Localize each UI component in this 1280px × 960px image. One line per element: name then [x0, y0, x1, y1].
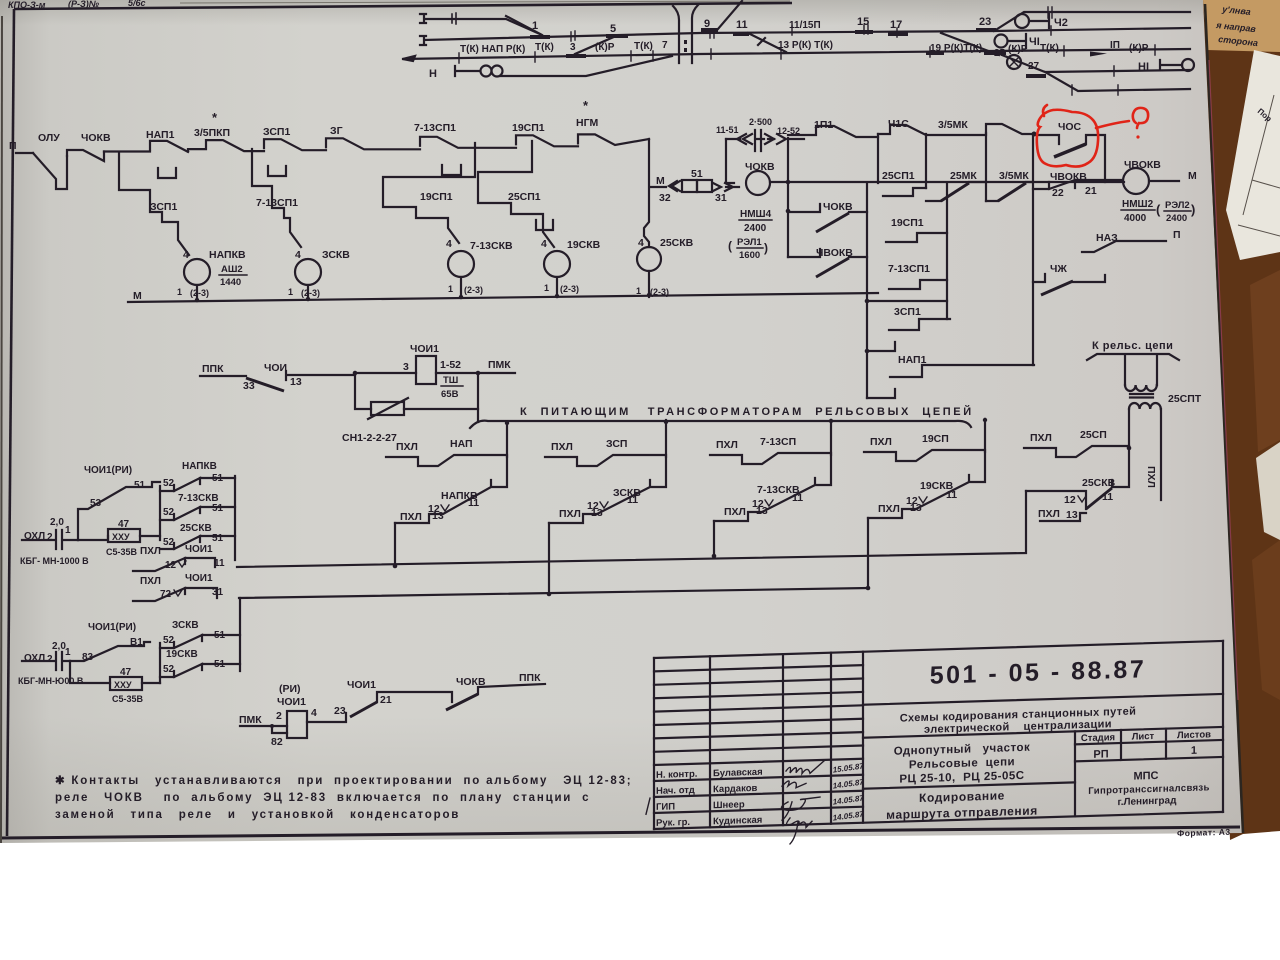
svg-text:13: 13: [290, 376, 302, 388]
svg-text:31: 31: [715, 192, 727, 204]
svg-text:НМШ2: НМШ2: [1122, 199, 1154, 210]
svg-text:52: 52: [163, 635, 175, 646]
SECTION: right network (ЧОКВ / ЧВОКВ): [0, 0, 1, 1]
svg-text:РП: РП: [1093, 748, 1108, 760]
svg-text:Т(К): Т(К): [1040, 43, 1059, 54]
svg-text:ППК: ППК: [202, 363, 224, 375]
svg-text:4000: 4000: [1124, 213, 1147, 224]
svg-text:1440: 1440: [220, 277, 241, 288]
svg-text:С5-35В: С5-35В: [112, 694, 144, 704]
svg-text:7-13СП1: 7-13СП1: [414, 122, 456, 134]
svg-text:ОЛУ: ОЛУ: [38, 132, 60, 144]
svg-text:3/5МК: 3/5МК: [999, 170, 1029, 182]
relay 19СКВ: [544, 251, 570, 277]
svg-text:25СКВ: 25СКВ: [1082, 477, 1116, 489]
sleeper marks on track C: [566, 53, 1006, 56]
svg-text:С5-35В: С5-35В: [106, 547, 138, 557]
svg-text:К рельс. цепи: К рельс. цепи: [1092, 340, 1173, 352]
svg-text:22: 22: [1052, 187, 1064, 199]
svg-text:ЧОКВ: ЧОКВ: [81, 132, 111, 144]
svg-text:3/5МК: 3/5МК: [938, 119, 968, 131]
svg-text:НГМ: НГМ: [576, 117, 599, 129]
SECTION: relay row 1: [9, 98, 878, 302]
svg-text:✱ Контакты устанавливаются: ✱ Контакты устанавливаются при проектиро…: [55, 775, 632, 787]
svg-text:1: 1: [1191, 745, 1197, 757]
tan paper top right with handwriting: [1203, 0, 1280, 52]
svg-text:1: 1: [177, 287, 182, 297]
svg-text:4: 4: [311, 707, 317, 719]
SECTION: bottom chain + footnote: [0, 0, 1, 1]
joint marks on track B: [571, 25, 1051, 41]
svg-text:ППК: ППК: [519, 672, 541, 684]
rails top row to mid row: [878, 133, 1033, 365]
svg-text:IП: IП: [1110, 40, 1120, 51]
svg-text:ЧОИ1(РИ): ЧОИ1(РИ): [88, 622, 136, 633]
relay НАПКВ type АШ2/1440: [184, 259, 210, 285]
svg-text:ПХЛ: ПХЛ: [140, 546, 161, 557]
svg-text:65В: 65В: [441, 389, 459, 400]
svg-text:РЭЛ2: РЭЛ2: [1165, 200, 1190, 211]
svg-text:27: 27: [1028, 61, 1040, 72]
svg-text:ЧОС: ЧОС: [1058, 121, 1082, 133]
svg-text:7-13СКВ: 7-13СКВ: [470, 240, 513, 252]
footnote text: [55, 775, 632, 821]
svg-text:3: 3: [403, 361, 409, 373]
sheet right edge shadow line: [1205, 4, 1243, 833]
svg-text:13: 13: [1066, 509, 1078, 521]
svg-text:1: 1: [288, 287, 293, 297]
wire rail: [506, 422, 508, 457]
svg-text:13: 13: [591, 507, 603, 519]
wire cap left leg: [725, 139, 727, 183]
svg-text:АШ2: АШ2: [221, 264, 243, 275]
handwritten signatures: [781, 761, 824, 844]
svg-text:3СП1: 3СП1: [894, 306, 921, 318]
svg-text:П: П: [9, 140, 17, 152]
svg-text:Н: Н: [429, 68, 437, 80]
svg-text:Кодирование: Кодирование: [919, 788, 1005, 805]
handwriting above top frame: [8, 0, 146, 10]
switch 25 crossing with X mark: [1002, 55, 1190, 91]
svg-text:ЧОИ1: ЧОИ1: [347, 679, 376, 691]
svg-text:82: 82: [271, 736, 283, 748]
svg-text:51: 51: [134, 480, 146, 491]
track C main lower: [403, 49, 1190, 61]
signal Н with two heads: [455, 66, 503, 77]
feeder group ЗСП: [545, 420, 666, 596]
SECTION: middle ЧОИ1 + feeders: [200, 340, 1202, 598]
svg-text:52: 52: [163, 507, 175, 518]
svg-text:(2-3): (2-3): [464, 285, 483, 295]
lighter paper slivers lower right: [1256, 442, 1280, 540]
wire rail 947 down: [946, 183, 948, 319]
svg-text:ЗСКВ: ЗСКВ: [172, 620, 199, 631]
svg-text:7-13СП: 7-13СП: [760, 436, 796, 448]
svg-text:Т(К) НАП Р(К): Т(К) НАП Р(К): [460, 44, 525, 55]
svg-text:Формат: А3: Формат: А3: [1177, 827, 1231, 839]
wire 867 to 947: [867, 300, 947, 302]
switch 1 diagonal: [506, 16, 542, 35]
svg-text:Стадия: Стадия: [1081, 732, 1115, 744]
handwritten dates: [832, 761, 864, 822]
svg-text:9: 9: [704, 18, 710, 30]
svg-text:2400: 2400: [744, 223, 767, 234]
svg-text:19СП1: 19СП1: [512, 122, 545, 134]
svg-text:11/15П: 11/15П: [789, 20, 821, 31]
svg-text:23: 23: [979, 16, 991, 28]
svg-text:(2-3): (2-3): [560, 284, 579, 294]
svg-text:19СП1: 19СП1: [891, 217, 924, 229]
red question mark: [1133, 108, 1148, 128]
svg-text:13: 13: [432, 510, 444, 522]
svg-text:РЭЛ1: РЭЛ1: [737, 237, 762, 248]
svg-text:ГИП: ГИП: [656, 801, 675, 813]
svg-text:ЗСП1: ЗСП1: [263, 126, 290, 138]
wire drop to 25СКВ chain: [644, 139, 649, 247]
svg-text:2: 2: [276, 710, 282, 722]
svg-text:1: 1: [544, 283, 549, 293]
svg-text:ЗГ: ЗГ: [330, 125, 343, 137]
switch 9 diagonal from top: [718, 1, 742, 29]
svg-text:4: 4: [638, 237, 644, 249]
section break double lines: [673, 5, 698, 63]
svg-text:НАП: НАП: [450, 438, 473, 450]
svg-text:4: 4: [541, 238, 547, 250]
svg-text:11: 11: [468, 497, 479, 509]
track B main upper: [420, 28, 1190, 45]
svg-text:1600: 1600: [739, 250, 760, 261]
wire to bus: [394, 523, 396, 566]
svg-text:5: 5: [610, 23, 616, 35]
ladder rails upper: [160, 476, 235, 560]
svg-text:13: 13: [756, 505, 768, 517]
svg-text:П: П: [1173, 229, 1181, 241]
arrow on track C right: [1090, 52, 1107, 57]
svg-text:25МК: 25МК: [950, 170, 977, 182]
svg-text:25СКВ: 25СКВ: [180, 523, 212, 534]
svg-text:ПХЛ: ПХЛ: [140, 576, 161, 587]
svg-text:Т(К): Т(К): [634, 41, 653, 52]
SECTION: track plan: [403, 1, 1194, 95]
svg-text:ЧОИ1(РИ): ЧОИ1(РИ): [84, 465, 132, 476]
svg-text:23: 23: [334, 705, 346, 717]
svg-text:реле ЧОКВ по альбому ЭЦ: реле ЧОКВ по альбому ЭЦ 12-83 включается…: [55, 792, 590, 804]
svg-text:32: 32: [659, 192, 671, 204]
joint marks on track C: [459, 45, 1155, 63]
svg-text:ЧОИ: ЧОИ: [264, 362, 287, 374]
svg-text:19СП1: 19СП1: [420, 191, 453, 203]
svg-text:Ч2: Ч2: [1054, 17, 1068, 29]
svg-text:25СП1: 25СП1: [508, 191, 541, 203]
svg-text:К ПИТАЮЩИМ ТРАНСФОРМАТОРАМ: К ПИТАЮЩИМ ТРАНСФОРМАТОРАМ РЕЛЬСОВЫХ ЦЕП…: [520, 405, 974, 418]
svg-text:2·500: 2·500: [749, 117, 772, 127]
svg-text:ПХЛ: ПХЛ: [396, 441, 418, 453]
svg-text:11: 11: [627, 494, 638, 506]
svg-text:13: 13: [910, 502, 922, 514]
switch 23 diagonal and top siding: [994, 12, 1190, 31]
SECTION: title block: [646, 641, 1231, 855]
signal Ч1: [995, 34, 1027, 48]
svg-text:Лист: Лист: [1132, 731, 1155, 743]
svg-text:12: 12: [1064, 494, 1076, 506]
svg-text:1: 1: [532, 20, 538, 32]
svg-text:4: 4: [183, 249, 189, 261]
drawing frame: [14, 3, 792, 9]
svg-text:ПМК: ПМК: [488, 359, 511, 371]
feeder group НАП: [386, 422, 507, 568]
svg-text:заменой типа реле и ус: заменой типа реле и установкой конденсат…: [55, 809, 460, 821]
red tail to question mark: [1096, 121, 1129, 128]
svg-text:г.Ленинград: г.Ленинград: [1118, 795, 1178, 808]
stray pen mark: [646, 798, 650, 814]
SECTION: red annotations: [1037, 105, 1148, 167]
svg-text:52: 52: [163, 478, 175, 489]
svg-text:Кудинская: Кудинская: [713, 815, 762, 827]
switch 13 diagonal: [748, 33, 786, 52]
svg-text:25СП1: 25СП1: [882, 170, 915, 182]
svg-text:19СКВ: 19СКВ: [166, 649, 198, 660]
svg-text:11: 11: [736, 19, 748, 31]
relay 7-13СКВ: [448, 251, 474, 277]
svg-text:52: 52: [163, 664, 175, 675]
sleeper (switch) marks on track B: [530, 30, 996, 37]
svg-text:НМШ4: НМШ4: [740, 209, 772, 220]
svg-text:25СПТ: 25СПТ: [1168, 393, 1202, 405]
svg-text:Т(К): Т(К): [535, 42, 554, 53]
svg-text:13 Р(К) Т(К): 13 Р(К) Т(К): [778, 40, 833, 51]
svg-text:ОХЛ: ОХЛ: [24, 653, 45, 664]
resistor СН1-2-2-27: [355, 373, 478, 409]
svg-text:ПХЛ: ПХЛ: [551, 441, 573, 453]
svg-text:2400: 2400: [1166, 213, 1187, 224]
svg-text:ЧОИ1: ЧОИ1: [277, 696, 306, 708]
svg-text:НАПКВ: НАПКВ: [182, 461, 217, 472]
svg-text:21: 21: [1085, 185, 1097, 197]
svg-text:СН1-2-2-27: СН1-2-2-27: [342, 432, 397, 444]
svg-text:25СП: 25СП: [1080, 429, 1107, 441]
svg-text:25: 25: [994, 48, 1006, 59]
svg-text:ЧОИ1: ЧОИ1: [185, 573, 213, 584]
svg-text:ХХУ: ХХУ: [112, 532, 130, 542]
svg-text:11: 11: [792, 492, 803, 504]
switch 5-3 diagonal: [575, 36, 616, 54]
svg-text:4: 4: [446, 238, 452, 250]
track A stub top-left: [420, 13, 540, 34]
svg-text:ПХЛ: ПХЛ: [716, 439, 738, 451]
signal Ч2: [1015, 14, 1049, 28]
svg-text:51: 51: [212, 533, 224, 544]
svg-text:Кардаков: Кардаков: [713, 783, 758, 795]
svg-text:2: 2: [47, 654, 53, 665]
feeder group 25СП: [1024, 429, 1129, 521]
wire from П: [16, 152, 33, 154]
svg-text:Листов: Листов: [1177, 729, 1211, 741]
svg-text:2,0: 2,0: [50, 517, 64, 528]
svg-text:КБГ- МН-1000 В: КБГ- МН-1000 В: [20, 556, 89, 566]
switch 7 siding diagonal lower-left: [500, 56, 672, 76]
svg-text:3: 3: [570, 42, 576, 53]
svg-text:1: 1: [65, 525, 71, 536]
svg-text:ПХЛ: ПХЛ: [1038, 508, 1060, 520]
svg-text:(2-3): (2-3): [301, 288, 320, 298]
svg-text:7-13СП1: 7-13СП1: [888, 263, 930, 275]
svg-text:Н. контр.: Н. контр.: [656, 769, 697, 781]
svg-text:М: М: [1188, 170, 1197, 182]
joints on sidings D and E: [1072, 66, 1118, 95]
svg-text:(: (: [728, 239, 732, 253]
switch 19-25 diagonal: [941, 33, 999, 55]
svg-text:М: М: [133, 290, 142, 302]
svg-text:ЧЖ: ЧЖ: [1050, 263, 1067, 275]
svg-text:НАПКВ: НАПКВ: [209, 249, 246, 261]
sleeper mark 27: [1026, 74, 1046, 78]
svg-text:ПМК: ПМК: [239, 714, 262, 726]
svg-text:25СКВ: 25СКВ: [660, 237, 694, 249]
svg-text:11: 11: [946, 489, 957, 501]
red circle around ЧОС: [1037, 105, 1098, 167]
svg-text:ЗСП: ЗСП: [606, 438, 627, 450]
svg-text:ПХЛ: ПХЛ: [559, 508, 581, 520]
svg-text:ПХЛ: ПХЛ: [870, 436, 892, 448]
svg-text:): ): [1191, 202, 1195, 217]
svg-text:ЧI: ЧI: [1029, 36, 1040, 48]
svg-text:17: 17: [890, 19, 902, 31]
svg-text:7: 7: [662, 40, 668, 51]
svg-text:ПХЛ: ПХЛ: [1030, 432, 1052, 444]
svg-text:ТШ: ТШ: [443, 375, 458, 386]
svg-text:52: 52: [163, 537, 175, 548]
bus A (ЧОИ1 11): [237, 491, 1026, 567]
feeder header bus line: [470, 409, 971, 428]
svg-text:ПХЛ: ПХЛ: [1145, 466, 1157, 488]
svg-text:1: 1: [636, 286, 641, 296]
feeder group 19СП: [864, 419, 985, 588]
svg-text:2: 2: [47, 532, 53, 543]
svg-text:(2-3): (2-3): [190, 288, 209, 298]
wire cap right leg / rail: [787, 138, 789, 182]
svg-text:ЧОИ1: ЧОИ1: [410, 343, 439, 355]
ladder rails lower: [160, 598, 240, 683]
svg-text:Булавская: Булавская: [713, 767, 763, 779]
feeder group 7-13СП: [710, 420, 831, 558]
svg-text:ПХЛ: ПХЛ: [724, 506, 746, 518]
svg-text:ЧОИ1: ЧОИ1: [185, 544, 213, 555]
svg-text:ХХУ: ХХУ: [114, 680, 132, 690]
signature rows: [656, 767, 763, 829]
svg-text:): ): [764, 241, 768, 255]
svg-text:ЗСКВ: ЗСКВ: [322, 249, 350, 261]
svg-text:Шнеер: Шнеер: [713, 799, 745, 811]
wire rail 867 down: [866, 183, 868, 398]
svg-text:ПХЛ: ПХЛ: [878, 503, 900, 515]
desk (dark brown) behind right edge of sheet: [1196, 0, 1280, 840]
svg-text:51: 51: [212, 503, 224, 514]
svg-text:21: 21: [380, 694, 392, 706]
svg-text:19СП: 19СП: [922, 433, 949, 445]
white paper wedge on desk, mid right: [1226, 50, 1280, 260]
wire: [200, 375, 246, 377]
svg-text:1: 1: [448, 284, 453, 294]
SECTION: left chains: [18, 461, 240, 704]
svg-text:11-51: 11-51: [716, 125, 739, 135]
wire rail 788 down: [787, 183, 789, 257]
svg-text:19 Р(К)Т(К): 19 Р(К)Т(К): [930, 43, 982, 54]
bus B (ЧОИ1 31): [239, 588, 868, 598]
svg-text:15: 15: [857, 16, 869, 28]
svg-text:11: 11: [1102, 491, 1113, 503]
svg-text:(: (: [1156, 202, 1161, 217]
svg-text:1: 1: [65, 647, 71, 658]
svg-text:(К)Р: (К)Р: [1129, 43, 1149, 54]
svg-text:КБГ-МН-Ю00 В: КБГ-МН-Ю00 В: [18, 676, 84, 686]
svg-text:4: 4: [295, 249, 301, 261]
svg-text:Нач. отд: Нач. отд: [656, 785, 695, 797]
svg-text:51: 51: [691, 168, 703, 180]
svg-text:НАП1: НАП1: [146, 129, 175, 141]
wire bus to НАП1: [104, 150, 150, 152]
svg-text:3/5ПКП: 3/5ПКП: [194, 127, 230, 139]
svg-text:(К)Р: (К)Р: [595, 42, 615, 53]
signal НI: [1160, 59, 1194, 71]
relay 25СКВ: [637, 247, 661, 271]
transformer windings: [1125, 356, 1157, 385]
svg-text:19СКВ: 19СКВ: [567, 239, 601, 251]
svg-text:МПС: МПС: [1133, 770, 1158, 783]
junction dots on feeder bus: [505, 421, 509, 425]
table grid: [654, 641, 1223, 829]
svg-text:Рук. гр.: Рук. гр.: [656, 817, 690, 829]
svg-text:НI: НI: [1138, 61, 1149, 73]
SECTION: right network (ЧОКВ / ЧВОКВ): [650, 117, 1197, 398]
svg-text:(РИ): (РИ): [279, 683, 301, 695]
svg-text:1-52: 1-52: [440, 359, 461, 371]
SECTION: bottom chain + footnote: [55, 672, 632, 821]
svg-text:М: М: [656, 175, 665, 187]
terminal ticks on rail 867: [867, 342, 895, 398]
relay ЗСКВ: [295, 259, 321, 285]
svg-text:(К)Р: (К)Р: [1008, 44, 1028, 55]
svg-text:ПХЛ: ПХЛ: [400, 511, 422, 523]
